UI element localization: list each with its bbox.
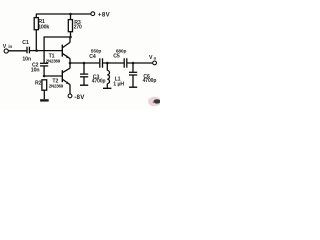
transistor T1 2N2369 bbox=[62, 37, 70, 63]
svg-text:V: V bbox=[149, 55, 153, 61]
node: T1 collector / feedback junction bbox=[69, 36, 72, 39]
node: R3 top junction bbox=[69, 13, 72, 16]
inductor L1 bbox=[107, 63, 109, 88]
wire: C1 to T1 base bbox=[29, 50, 61, 52]
wire: feedback from T1 collector to C2 column bbox=[44, 37, 70, 63]
Vin input terminal bbox=[4, 49, 8, 53]
svg-text:2N2369: 2N2369 bbox=[46, 58, 61, 63]
svg-text:1 μH: 1 μH bbox=[113, 81, 124, 87]
svg-text:+8V: +8V bbox=[98, 12, 111, 19]
node: T2 base junction bbox=[43, 75, 46, 78]
svg-text:C5: C5 bbox=[113, 54, 120, 60]
node: C6 junction bbox=[132, 62, 135, 65]
capacitor C1 bbox=[27, 47, 29, 54]
svg-text:2N2369: 2N2369 bbox=[49, 84, 64, 89]
wire: T2 base bbox=[44, 75, 62, 77]
resistor R3 bbox=[68, 14, 72, 37]
capacitor C5 bbox=[124, 58, 127, 67]
wire: output bus bbox=[70, 62, 99, 64]
svg-text:C1: C1 bbox=[22, 40, 29, 46]
resistor R1 bbox=[34, 14, 38, 51]
ground (L1) bbox=[103, 87, 111, 89]
top rail wire (+8V rail) bbox=[36, 13, 91, 15]
wire: input to C1 bbox=[8, 50, 27, 52]
svg-text:4700p: 4700p bbox=[143, 78, 157, 84]
svg-text:10n: 10n bbox=[31, 67, 40, 73]
scan smudge bottom right bbox=[148, 97, 161, 107]
ground (C6) bbox=[129, 86, 137, 88]
resistor R2 bbox=[42, 80, 47, 99]
svg-text:270: 270 bbox=[74, 25, 82, 31]
svg-text:a: a bbox=[154, 56, 157, 61]
ground (C3) bbox=[80, 84, 88, 86]
wire: C4 to C5 bbox=[103, 62, 124, 64]
capacitor C6 bbox=[129, 63, 137, 87]
Va output terminal bbox=[153, 61, 157, 65]
node: C3 junction bbox=[83, 62, 86, 65]
svg-text:R2: R2 bbox=[35, 81, 42, 87]
svg-text:C4: C4 bbox=[89, 54, 96, 60]
node: R1 bottom / input junction bbox=[35, 49, 38, 52]
capacitor C4 bbox=[100, 58, 103, 67]
node: T1 emitter / T2 collector / output junction bbox=[69, 62, 72, 65]
svg-text:10n: 10n bbox=[22, 56, 31, 62]
svg-text:-8V: -8V bbox=[74, 94, 85, 101]
transistor T2 2N2369 bbox=[62, 63, 70, 94]
-8V terminal bbox=[68, 94, 72, 98]
svg-text:4700p: 4700p bbox=[92, 79, 106, 85]
ground (R2) bbox=[40, 99, 49, 101]
+8V terminal bbox=[91, 12, 95, 16]
node: L1 junction bbox=[106, 62, 109, 65]
capacitor C3 bbox=[80, 63, 88, 85]
svg-text:in: in bbox=[8, 44, 12, 49]
svg-text:100k: 100k bbox=[38, 25, 49, 31]
capacitor C2 bbox=[40, 63, 48, 76]
wire: C5 to output terminal bbox=[127, 62, 153, 64]
